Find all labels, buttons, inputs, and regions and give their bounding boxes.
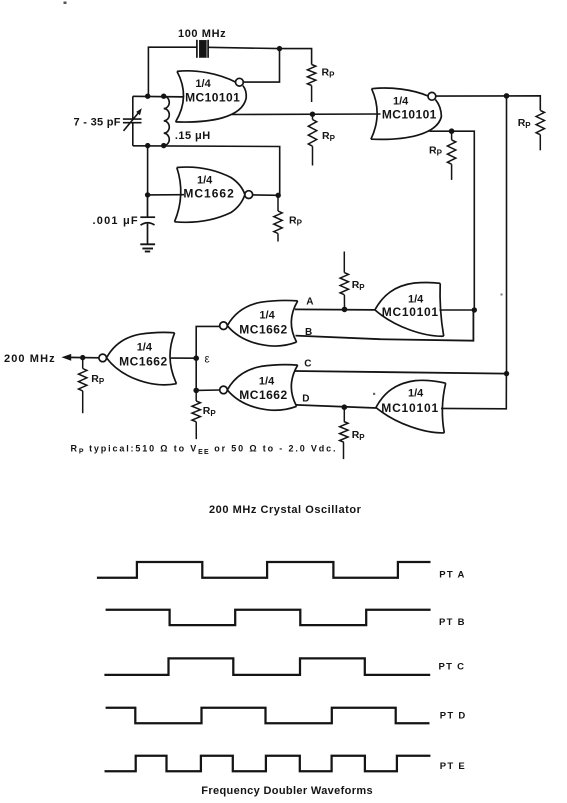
svg-text:7 - 35 pF: 7 - 35 pF bbox=[74, 117, 121, 129]
op gate U2 1/4 MC1662 NOR bbox=[175, 167, 253, 222]
waveform PT D bbox=[106, 708, 430, 723]
wire D bbox=[296, 405, 376, 408]
svg-text:B: B bbox=[305, 327, 312, 338]
svg-text:200 MHz Crystal Oscillator: 200 MHz Crystal Oscillator bbox=[209, 504, 362, 516]
node E bbox=[193, 355, 199, 361]
svg-text:1/4: 1/4 bbox=[393, 96, 409, 108]
resistor Rp (below U3 OR) bbox=[451, 131, 453, 140]
resistor Rp (below D) bbox=[343, 407, 345, 421]
op gate U8 1/4 MC1662 buffer bbox=[99, 332, 177, 384]
svg-text:PT B: PT B bbox=[439, 617, 466, 628]
node top rail left bbox=[145, 94, 150, 99]
waveform PT A bbox=[97, 562, 431, 578]
svg-text:MC10101: MC10101 bbox=[185, 91, 240, 105]
svg-text:200 MHz: 200 MHz bbox=[4, 353, 56, 365]
svg-text:MC1662: MC1662 bbox=[239, 388, 287, 402]
wire C bbox=[295, 371, 507, 374]
svg-text:MC10101: MC10101 bbox=[381, 401, 439, 415]
svg-text:MC1662: MC1662 bbox=[183, 187, 234, 201]
svg-text:PT E: PT E bbox=[440, 761, 466, 772]
node bottom rail inductor bbox=[161, 143, 166, 148]
svg-text:1/4: 1/4 bbox=[197, 175, 213, 187]
resistor Rp (below U2 output) bbox=[277, 195, 279, 211]
resistor Rp (above A) bbox=[343, 252, 345, 273]
wire U3 NOR long vertical to C row bbox=[506, 96, 508, 374]
svg-text:100 MHz: 100 MHz bbox=[178, 28, 226, 40]
wire U2 output to node bbox=[253, 194, 279, 196]
ground bbox=[140, 244, 155, 251]
capacitor C2 .001 uF bbox=[140, 195, 155, 244]
svg-text:MC1662: MC1662 bbox=[239, 323, 287, 337]
wire U8 output to node E bbox=[171, 357, 196, 359]
waveform PT B bbox=[106, 610, 431, 625]
node Rp tap on U3 OR bbox=[449, 128, 455, 134]
svg-text:.001 μF: .001 μF bbox=[93, 215, 139, 227]
op gate U7 1/4 MC10101 wired-OR bbox=[376, 380, 446, 433]
svg-text:PT D: PT D bbox=[440, 710, 467, 721]
node D tap bbox=[342, 404, 348, 410]
node crystal/Rp junction bbox=[277, 46, 282, 51]
svg-text:MC10101: MC10101 bbox=[382, 108, 437, 122]
wire E down to U6 input bbox=[196, 358, 220, 390]
wire B bbox=[296, 310, 474, 341]
wire U1 NOR bubble to top node bbox=[243, 49, 279, 83]
node input Rp tap bbox=[80, 355, 85, 360]
svg-text:MC1662: MC1662 bbox=[119, 355, 168, 369]
wire top rail of tank bbox=[133, 95, 184, 98]
op gate U5 1/4 MC10101 wired-OR bbox=[375, 282, 444, 336]
node bottom rail left bbox=[145, 143, 150, 148]
svg-text:Frequency Doubler Waveforms: Frequency Doubler Waveforms bbox=[201, 785, 373, 797]
scan speck bbox=[64, 2, 67, 5]
svg-text:1/4: 1/4 bbox=[137, 342, 153, 354]
node Rp tap on U1 OR wire bbox=[310, 112, 315, 117]
resistor Rp (input) bbox=[82, 358, 84, 369]
scan speck near U5 bbox=[501, 294, 503, 296]
waveform PT C bbox=[104, 658, 430, 675]
op gate U1 1/4 MC10101 OR/NOR bbox=[176, 71, 247, 122]
node top rail inductor bbox=[161, 94, 166, 99]
svg-text:C: C bbox=[304, 359, 311, 370]
inductor L1 .15 uH bbox=[164, 96, 170, 145]
scan speck near U7 bbox=[373, 393, 375, 395]
wire U7 output to C junction bbox=[441, 374, 506, 409]
node C junction bbox=[504, 371, 509, 376]
node U3 NOR junction bbox=[504, 93, 510, 99]
resistor Rp (below U1 OR wire) bbox=[312, 114, 314, 119]
capacitor C1 7-35 pF (variable) bbox=[123, 96, 142, 146]
svg-text:PT C: PT C bbox=[439, 661, 466, 672]
wire crystal left to corner bbox=[148, 47, 197, 96]
svg-text:1/4: 1/4 bbox=[408, 388, 424, 400]
svg-text:D: D bbox=[302, 394, 309, 405]
op gate U3 1/4 MC10101 OR/NOR bbox=[371, 88, 442, 139]
wire A bbox=[295, 308, 375, 311]
svg-text:MC10101: MC10101 bbox=[382, 305, 439, 319]
svg-text:1/4: 1/4 bbox=[259, 310, 275, 322]
svg-text:1/4: 1/4 bbox=[195, 78, 211, 90]
wire U3 OR output bbox=[430, 131, 475, 310]
node U2 output bbox=[276, 193, 281, 198]
svg-text:1/4: 1/4 bbox=[408, 294, 424, 306]
wire E up to U4 input bbox=[196, 326, 220, 358]
op gate U6 1/4 MC1662 OR/NOR outputs C D bbox=[220, 365, 298, 411]
svg-text:ε: ε bbox=[205, 354, 210, 366]
svg-text:1/4: 1/4 bbox=[259, 376, 275, 388]
waveform PT E bbox=[105, 756, 431, 771]
resistor Rp (far right) bbox=[536, 110, 544, 134]
svg-text:PT A: PT A bbox=[439, 569, 466, 580]
node A tap bbox=[342, 307, 348, 313]
node lower branch bbox=[193, 388, 199, 394]
wire tank to U2 input bbox=[148, 146, 184, 195]
op gate U4 1/4 MC1662 OR/NOR outputs A B bbox=[220, 300, 298, 346]
node U2 input bbox=[145, 192, 150, 197]
wire crystal right to Rp corner bbox=[208, 47, 312, 64]
crystal Y1 100 MHz bbox=[197, 40, 208, 58]
svg-text:.15 μH: .15 μH bbox=[175, 130, 211, 142]
wire U1 OR output to U3 input bbox=[232, 113, 381, 116]
svg-text:A: A bbox=[306, 297, 313, 308]
wire U5 output bbox=[440, 309, 475, 311]
wire U3 NOR output to right Rp bbox=[436, 96, 541, 111]
input arrow bbox=[62, 354, 72, 361]
node U5 output junction bbox=[472, 307, 477, 312]
resistor Rp (node E branch) bbox=[195, 390, 197, 401]
resistor Rp (top, from crystal wire) bbox=[307, 65, 315, 86]
wire bottom rail of tank bbox=[133, 146, 280, 196]
